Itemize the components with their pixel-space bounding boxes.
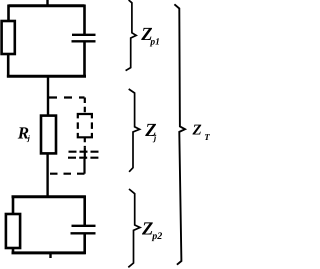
brace for Z_T (total)	[174, 4, 185, 264]
wire: top loop right branch lower	[83, 41, 86, 77]
capacitor (bottom loop, right branch of Zp2 loop)	[71, 226, 96, 234]
brace for Z_p1	[126, 0, 137, 71]
label Z_p2	[141, 220, 162, 242]
wire: bottom loop left branch lower	[12, 248, 15, 254]
wire: top loop top side	[9, 4, 85, 7]
resistor (bottom parallel box, left branch of Zp2 loop)	[6, 214, 20, 248]
dashed impedance box side dashes	[78, 122, 92, 128]
wire: stub crossing dashed capacitor	[84, 147, 86, 159]
wire: dashed bottom horizontal of Zi branch	[48, 173, 85, 175]
resistor R_j	[41, 116, 56, 154]
dashed capacitor bottom plate	[68, 157, 99, 159]
top terminal stub	[46, 0, 48, 6]
resistor (top parallel box, left branch of Zp1 loop)	[2, 21, 15, 54]
wire: dashed stub from box bottom to capacitor	[84, 138, 86, 148]
wire: bottom loop right branch lower	[83, 233, 86, 254]
svg-text:Z: Z	[192, 122, 202, 138]
svg-text:p2: p2	[151, 231, 162, 242]
brace for Z_p2	[128, 189, 140, 267]
bottom terminal stub	[49, 253, 51, 258]
wire: bottom loop left branch upper	[12, 196, 15, 215]
wire: dashed top horizontal of Zi branch	[49, 96, 85, 98]
svg-text:T: T	[204, 132, 210, 142]
dashed impedance box (junction element) top edge with corner tabs	[78, 114, 92, 118]
label Z_p1	[140, 25, 160, 48]
capacitor (top loop, right branch of Zp1 loop)	[72, 35, 96, 42]
wire: vertical below dashed capacitor	[83, 159, 85, 174]
wire: top loop bottom side	[7, 75, 86, 78]
svg-text:p1: p1	[149, 38, 160, 48]
wire: main vertical between Rj and bottom loop	[46, 153, 48, 198]
brace for Z_i	[129, 89, 140, 172]
wire: dashed vertical from corner to dashed box	[84, 98, 86, 114]
svg-text:j: j	[27, 134, 31, 143]
dashed impedance box bottom edge with corner tabs	[78, 133, 92, 137]
wire: bottom loop right branch upper	[83, 196, 86, 226]
label Z_T	[192, 122, 211, 142]
label R_j	[17, 123, 31, 142]
dashed capacitor top plate	[69, 151, 99, 153]
wire: bottom loop top side	[12, 195, 86, 198]
label Z_i	[144, 121, 157, 142]
wire: top loop left branch lower	[7, 54, 10, 78]
wire: top loop right branch upper	[83, 5, 86, 35]
wire: main vertical between top loop and Rj	[47, 77, 49, 117]
wire: top loop left branch upper	[7, 5, 10, 22]
wire: bottom loop bottom side	[12, 251, 86, 254]
